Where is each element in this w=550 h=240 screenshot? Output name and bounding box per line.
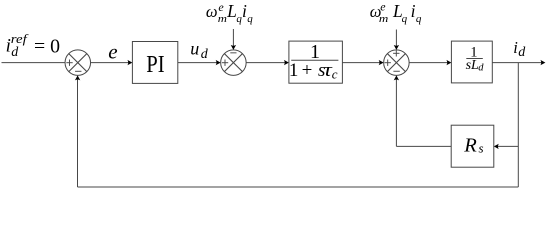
S3 plus sign (top input) xyxy=(393,50,399,56)
node label u_d xyxy=(190,39,208,62)
S2 minus sign (top input) xyxy=(230,52,236,54)
outer feedback bottom wire xyxy=(78,186,519,188)
svg-text:+: + xyxy=(302,60,313,81)
S3 plus sign (left input) xyxy=(385,60,391,66)
svg-text:d: d xyxy=(11,45,19,60)
svg-text:e: e xyxy=(218,0,224,14)
svg-text:e: e xyxy=(380,0,386,14)
block 1/(1+s tau_c) xyxy=(289,41,343,83)
block 1/(s L_d) xyxy=(451,41,492,83)
node label e xyxy=(108,39,117,63)
svg-text:i: i xyxy=(411,1,416,21)
node label i_d (output) xyxy=(513,38,526,60)
wire input to summing junction S1 xyxy=(2,62,66,64)
svg-text:q: q xyxy=(247,13,253,25)
svg-text:q: q xyxy=(402,13,408,25)
svg-text:R: R xyxy=(463,134,477,156)
svg-text:s: s xyxy=(479,141,484,156)
block PI xyxy=(132,42,177,84)
svg-text:= 0: = 0 xyxy=(34,35,60,57)
outer feedback left vertical wire into S1 bottom with arrow xyxy=(75,75,80,187)
block R_s xyxy=(451,125,494,167)
svg-text:L: L xyxy=(226,1,237,21)
svg-text:ω: ω xyxy=(206,2,218,21)
wire filter to summing junction S3 with arrow xyxy=(342,60,383,65)
summing junction S2 xyxy=(221,50,247,76)
S1 minus sign (bottom input) xyxy=(75,70,81,72)
svg-text:u: u xyxy=(190,39,199,59)
svg-text:d: d xyxy=(201,47,209,62)
S2 plus sign (left input) xyxy=(222,60,228,66)
wire plant to output with arrow xyxy=(492,60,545,65)
feedforward arrow into S3 top xyxy=(394,30,399,50)
feedforward label omega_m^e L_q i_q (right) xyxy=(370,0,422,25)
summing junction S1 xyxy=(65,50,91,76)
svg-text:m: m xyxy=(218,13,227,25)
svg-text:d: d xyxy=(518,45,526,60)
svg-text:c: c xyxy=(332,67,338,82)
wire into R_s block with arrow xyxy=(494,144,519,149)
feedback branch vertical wire (right) xyxy=(517,63,519,187)
svg-text:q: q xyxy=(416,13,422,25)
svg-text:1: 1 xyxy=(289,60,299,81)
feedforward label omega_m^e L_q i_q (left) xyxy=(206,0,253,25)
svg-text:d: d xyxy=(478,62,484,73)
feedforward arrow into S2 top xyxy=(231,29,236,50)
svg-text:m: m xyxy=(379,13,388,25)
S1 plus sign (left input) xyxy=(66,60,72,66)
summing junction S3 xyxy=(384,50,410,76)
wire S2 to filter block with arrow xyxy=(246,60,289,65)
svg-text:e: e xyxy=(108,39,117,63)
svg-text:PI: PI xyxy=(146,51,164,78)
S3 minus sign (bottom input) xyxy=(393,70,399,72)
wire S1 to PI block with arrow xyxy=(91,60,133,65)
wire PI to summing junction S2 with arrow xyxy=(178,60,221,65)
node label i_d^ref = 0 xyxy=(6,32,61,60)
wire S3 to plant block with arrow xyxy=(409,60,451,65)
wire R_s to S3 bottom with arrow xyxy=(394,75,452,146)
